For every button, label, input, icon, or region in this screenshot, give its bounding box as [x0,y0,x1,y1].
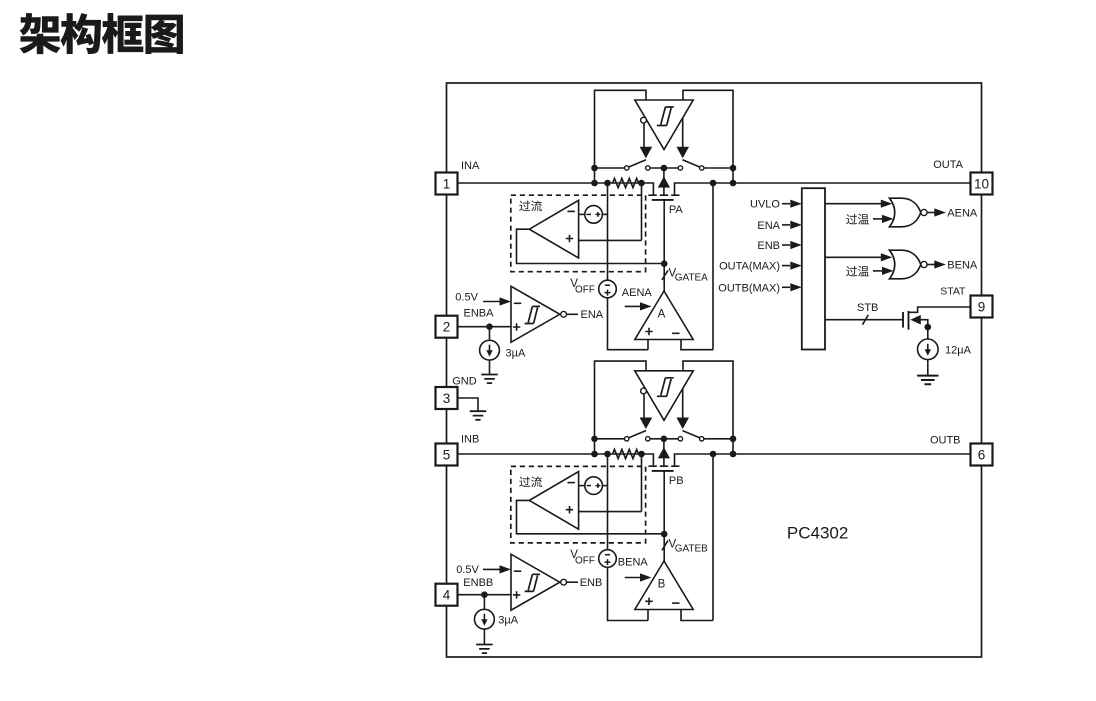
U1 left control arrow to switch S1 [643,124,645,148]
node A OUTA feedback junction [710,180,717,187]
wire resistor-left node down to VOFF A [607,183,609,280]
switch S2 lever [683,160,700,167]
switch S3 contact [625,437,629,441]
NOR G1 output bubble [921,209,927,215]
svg-text:2: 2 [443,320,451,335]
wire A loop left (switch line to comparator input) [595,90,647,183]
input arrow UVLO to control block [782,203,790,205]
switch S2 contact [700,166,704,170]
wire resistor-left node down to VOFF B [607,454,609,550]
transistor PB drain-source line with body arrow [663,439,665,466]
VGATEB slash [662,541,668,551]
op-amp OC-A minus label [568,210,575,212]
wire control block to NOR G2 [825,256,881,258]
VGATEA slash [662,270,668,280]
wire OC-B output to PB gate [517,500,664,533]
offset source VOFF A [599,280,617,298]
node A resistor-right junction [638,180,645,187]
svg-text:ENBA: ENBA [464,307,495,319]
resistor RB (sense resistor) [613,449,639,458]
NOR G2 output bubble [921,261,927,267]
comparator U3 body (channel B sense comparator) [635,371,693,421]
comparator U4 body (ENB hysteresis comparator) [511,554,560,610]
U2 minus label [514,302,521,304]
wire A loop right (switch line to comparator input) [683,90,733,183]
wire B loop right [683,361,733,454]
label 过流 B [519,476,530,487]
transistor PB channel segments [648,465,679,467]
switch A middle pole segment [650,167,678,169]
transistor PA channel segments [648,194,679,196]
op-amp OC-B minus label [568,482,575,484]
transistor PA drain-source line with body arrow [663,168,665,195]
svg-text:GND: GND [452,375,477,387]
label 过温 2 [846,266,857,277]
node ENBA junction [486,323,493,330]
title 架构框图 [20,13,183,54]
switch line A right segment [704,167,733,169]
node A INA-left junction [591,180,598,187]
svg-text:6: 6 [978,448,986,463]
svg-text:ENB: ENB [757,240,780,252]
wire OC-A output to PA gate [517,229,664,263]
current source IS3 12uA [918,339,939,360]
wire OC-A plus input to resistor-right node [579,183,642,240]
BENA enable arrow into amp B [625,577,642,579]
pin 2 ENBA [436,316,458,338]
wire OC-B minus input to VS2 [579,485,585,487]
input arrow ENB to control block [782,244,790,246]
svg-text:BENA: BENA [618,556,649,568]
switch line B left segment [595,438,625,440]
node B resistor-left junction [604,451,611,458]
NOR gate G2 [890,250,921,279]
amplifier B minus label [672,602,679,604]
pin 3 GND [436,387,458,409]
pin 10 OUTA [971,173,993,195]
input arrow OUTA(MAX) to control block [782,265,790,267]
op-amp OC-A plus label [566,235,573,242]
STB slash [863,315,869,325]
wire PA gate to VGATEA node and amp A [663,200,665,291]
pin 9 STAT [971,296,993,318]
U1 output bubble [641,117,647,123]
amplifier A body [635,291,693,340]
hysteresis symbol U3 [657,378,674,397]
transistor Q3 gate plate [902,312,904,328]
wire OUTB from PB right terminal to pin6 [675,454,971,466]
wire 过温 to NOR G2 [873,270,883,272]
wire VOFF B to amp B plus terminal [608,567,649,620]
wire INB from pin5 to PB left terminal [458,454,654,466]
svg-text:5: 5 [443,448,451,463]
wire 过温 to NOR G1 [873,218,883,220]
svg-text:12µA: 12µA [945,344,972,356]
op-amp OC-B plus label [566,506,573,513]
svg-text:0.5V: 0.5V [455,291,478,303]
node A OUTA-right junction [730,180,737,187]
AENA enable arrow into amp A [625,305,642,307]
hysteresis symbol U4 [525,574,540,591]
transistor PB gate plate [652,470,674,472]
overcurrent block A dashed box [511,195,646,272]
hysteresis symbol U2 [525,306,540,323]
node B switch-left junction [591,436,598,443]
svg-text:PC4302: PC4302 [787,524,848,543]
node B INB-left junction [591,451,598,458]
svg-text:OUTA: OUTA [933,159,963,171]
svg-text:4: 4 [443,588,451,603]
wire G2 output to BENA [927,264,935,266]
amplifier B plus label [645,598,652,605]
input arrow ENA to control block [782,224,790,226]
node A switch pole junction [661,165,668,172]
svg-text:UVLO: UVLO [750,199,780,211]
switch B middle pole segment [650,438,678,440]
U3 right control arrow to switch S4 [682,388,684,417]
svg-text:INB: INB [461,433,479,445]
svg-text:STAT: STAT [940,286,966,298]
svg-text:3: 3 [443,391,451,406]
svg-text:ENA: ENA [581,309,604,321]
comparator U2 body (ENA hysteresis comparator) [511,286,560,342]
wire pin3 to ground [458,398,479,411]
NOR gate G1 [890,198,921,227]
0.5V arrow into comparator U2 [483,301,501,303]
svg-text:B: B [658,579,666,591]
wire G1 output to AENA [927,212,935,214]
wire control block to NOR G1 [825,203,881,205]
svg-text:PA: PA [669,204,684,216]
wire amp A minus terminal to OUTA [681,183,713,350]
svg-text:BENA: BENA [947,260,978,272]
svg-text:3µA: 3µA [506,348,526,360]
wire B loop left [595,361,647,454]
U4 output bubble [561,579,567,585]
ground symbol below IS3 [917,376,938,385]
svg-text:A: A [658,309,666,321]
svg-text:9: 9 [978,300,986,315]
wire junction to current source IS1 [489,327,491,341]
overcurrent block B dashed box [511,466,646,543]
svg-text:OUTA(MAX): OUTA(MAX) [719,261,780,273]
wire PB gate to VGATEB node and amp B [663,471,665,561]
U2 output bubble [561,311,567,317]
wire U2 output [567,313,579,315]
U2 plus label [513,323,520,330]
node B switch pole junction [661,436,668,443]
switch B pole contact right [678,437,682,441]
U1 right control arrow to switch S2 [682,118,684,147]
switch S1 lever [629,160,646,167]
switch A pole contact right [678,166,682,170]
node B resistor-right junction [638,451,645,458]
offset source VS2 (overcurrent threshold B) [585,477,603,495]
node A switch-left junction [591,165,598,172]
wire U4 output [567,581,579,583]
wire OUTA from PA right terminal to pin10 [675,183,971,195]
wire IS1 to ground [489,360,491,374]
svg-text:STB: STB [857,302,878,314]
wire OC-B plus input to resistor-right node [579,454,642,512]
amplifier A minus label [672,332,679,334]
IC boundary box [447,83,982,657]
node ENBB junction [481,591,488,598]
wire amp B minus terminal to OUTB [681,454,713,621]
transistor Q3 drain to pin9 [909,307,971,312]
U4 minus label [514,570,521,572]
ground symbol at pin3 [470,411,487,420]
svg-text:1: 1 [443,177,451,192]
wire OC-A minus input to VS1 [579,213,585,215]
svg-text:ENBB: ENBB [463,577,493,589]
offset source VS1 (overcurrent threshold A) [585,206,603,224]
input arrow OUTB(MAX) to control block [782,286,790,288]
pin 6 OUTB [971,444,993,466]
switch line B right segment [704,438,733,440]
node A resistor-left junction [604,180,611,187]
control block [802,188,825,349]
resistor RA (sense resistor) [613,178,639,187]
switch S4 contact [700,437,704,441]
wire IS2 to ground [483,629,485,644]
transistor PA gate plate [652,199,674,201]
op-amp OC-A body (overcurrent comparator A) [529,200,578,258]
svg-text:OFF: OFF [575,284,595,295]
amplifier A plus label [645,328,652,335]
svg-text:10: 10 [974,177,989,192]
ground symbol below IS1 [481,375,498,384]
wire INA from pin1 to PA left terminal [458,183,654,195]
svg-text:GATEA: GATEA [675,273,708,284]
svg-text:ENA: ENA [757,220,780,232]
pin 1 INA [436,173,458,195]
current source IS1 3uA [480,340,500,360]
svg-text:OFF: OFF [575,555,595,566]
svg-text:0.5V: 0.5V [456,564,479,576]
transistor Q3 channel bar [908,311,910,330]
wire VS2 to resistor-left node [602,485,607,487]
switch B pole contact left [646,437,650,441]
node Q3 source junction [925,324,932,331]
switch S3 lever [629,431,646,438]
svg-text:INA: INA [461,160,480,172]
current source IS2 3uA [475,609,495,629]
wire pin2 to comparator U2 plus input [458,326,512,328]
svg-text:OUTB(MAX): OUTB(MAX) [718,282,780,294]
switch A pole contact left [646,166,650,170]
switch S4 lever [683,431,700,438]
node VGATEA junction [661,260,668,267]
svg-text:3µA: 3µA [498,615,518,627]
transistor Q3 source wire [921,320,928,340]
U4 plus label [513,591,520,598]
svg-text:GATEB: GATEB [675,544,708,555]
label 过温 1 [846,214,857,225]
wire VS1 to resistor-left node [602,213,607,215]
node B OUTB-right junction [730,451,737,458]
svg-text:ENB: ENB [580,577,603,589]
node A switch-right junction [730,165,737,172]
U3 left control arrow to switch S3 [643,394,645,418]
switch S1 contact [625,166,629,170]
wire STB from control block to Q3 gate [825,319,903,321]
label 过流 A [519,201,530,212]
wire IS3 to ground [927,360,929,376]
offset source VOFF B [599,550,617,568]
0.5V arrow into comparator U4 [483,568,501,570]
ground symbol below IS2 [476,645,493,654]
pin 5 INB [436,444,458,466]
wire junction to current source IS2 [483,595,485,610]
node B switch-right junction [730,436,737,443]
U3 output bubble [641,388,647,394]
node VGATEB junction [661,531,668,538]
svg-text:OUTB: OUTB [930,435,961,447]
op-amp OC-B body (overcurrent comparator B) [529,472,578,530]
pin 4 ENBB [436,584,458,606]
switch line A left segment [595,167,625,169]
wire VOFF A to amp A plus terminal [608,298,649,350]
node B OUTB feedback junction [710,451,717,458]
hysteresis symbol U1 [657,107,674,126]
transistor Q3 body arrow [910,315,921,325]
svg-text:PB: PB [669,475,684,487]
comparator U1 body (channel A sense comparator) [635,100,693,150]
amplifier B body [635,561,693,610]
svg-text:AENA: AENA [947,208,978,220]
svg-text:AENA: AENA [622,287,653,299]
wire pin4 to comparator U4 plus input [458,594,512,596]
